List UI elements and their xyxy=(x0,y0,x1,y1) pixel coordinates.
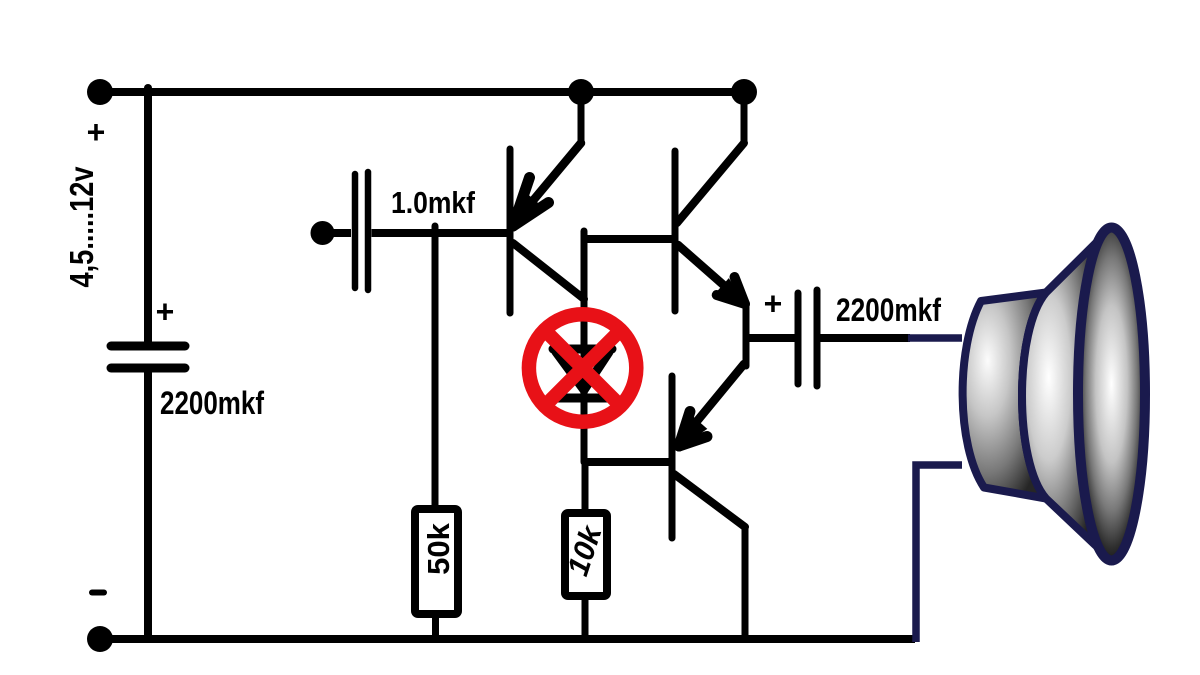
prohibition sign: red X xyxy=(545,330,620,405)
transistor Q1: emitter diagonal with arrow into base bar xyxy=(516,143,581,221)
speaker LS1: cone xyxy=(1022,228,1111,560)
svg-text:4,5.....12v: 4,5.....12v xyxy=(63,166,100,288)
transistor Q3 (PNP): base bar xyxy=(669,376,676,538)
transistor Q1: collector diagonal xyxy=(513,243,584,299)
transistor Q2 (NPN): base bar xyxy=(672,151,679,311)
speaker LS1: magnet body xyxy=(963,293,1046,499)
node: battery + terminal xyxy=(87,79,113,105)
transistor Q3: collector diagonal xyxy=(674,474,745,527)
wire: left rail upper xyxy=(144,88,152,346)
wire: bottom ground rail xyxy=(100,635,915,643)
wire: C3 to speaker (black part) xyxy=(820,334,910,342)
diode D1 (crossed out): top bar xyxy=(553,345,612,354)
wire: to R2 and Q3 base xyxy=(584,458,670,466)
wire: Q3 collector to ground rail xyxy=(742,527,749,639)
label: - (battery bottom) xyxy=(92,590,104,596)
svg-text:+: + xyxy=(87,114,106,150)
wire: left rail lower xyxy=(144,368,152,639)
wire: R1 to ground rail xyxy=(432,614,439,639)
node: battery - terminal xyxy=(87,626,113,652)
wire: navy to speaker top xyxy=(908,334,962,342)
capacitor C3 2200mkf: plates xyxy=(795,293,802,384)
wire: input to C2 xyxy=(322,229,351,237)
transistor Q2: collector diagonal to node B xyxy=(677,143,744,223)
svg-text:2200mkf: 2200mkf xyxy=(836,292,941,328)
resistor R2 10k: body xyxy=(565,513,607,596)
wire: middle vertical node xyxy=(581,231,588,462)
svg-text:2200mkf: 2200mkf xyxy=(160,385,264,421)
resistor R1 50k: body xyxy=(415,509,458,614)
wire: R2 to ground rail xyxy=(582,600,589,639)
diode D1: cathode bar xyxy=(553,394,612,403)
node B: top rail junction 2 xyxy=(731,79,757,105)
node: input terminal xyxy=(311,221,335,245)
transistor Q1 (PNP): base bar xyxy=(507,149,514,313)
svg-text:+: + xyxy=(764,286,783,322)
node A: top rail junction 1 xyxy=(568,79,594,105)
prohibition sign: red circle xyxy=(529,314,636,421)
wire: to Q2 base xyxy=(584,235,672,243)
wire: emitter junction vertical xyxy=(743,303,750,366)
speaker LS1: rim ellipse xyxy=(1078,228,1145,561)
svg-text:+: + xyxy=(156,294,175,330)
wire: output junction to C3 xyxy=(746,334,796,342)
wire: navy speaker return (bottom) xyxy=(916,465,962,642)
svg-text:1.0mkf: 1.0mkf xyxy=(391,185,476,220)
transistor Q1: emitter stub from node A xyxy=(578,92,585,143)
transistor Q3: emitter diagonal with arrow into bar xyxy=(679,364,744,443)
wire: junction down to R1 xyxy=(432,226,439,507)
wire: top supply rail xyxy=(100,88,744,96)
capacitor C1 2200mkf: plates xyxy=(111,342,185,351)
wire: C2 to Q1 base xyxy=(372,229,508,237)
capacitor C2 1.0mkf: plates xyxy=(352,174,359,288)
transistor Q2: emitter diagonal with arrow outward xyxy=(678,245,744,303)
diode D1: triangle sides xyxy=(556,352,584,390)
svg-text:50k: 50k xyxy=(421,522,456,574)
